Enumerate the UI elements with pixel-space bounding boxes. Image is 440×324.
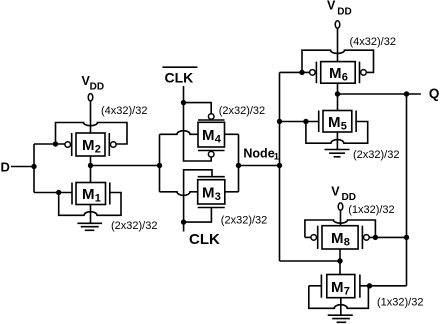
- transmission gate left bus: [159, 134, 161, 192]
- wire M1 gate stub: [34, 192, 72, 194]
- node M8 strap junction: [373, 235, 378, 240]
- node inverter1 output: [88, 163, 93, 168]
- svg-text:M: M: [202, 127, 215, 144]
- node M6 gate strap junction: [299, 70, 304, 75]
- transistor M7 (NMOS keeper): [321, 275, 360, 298]
- svg-text:1: 1: [95, 193, 101, 205]
- wire M5 gate strap (hops over ground wire): [306, 122, 368, 144]
- wire M8 drain to M7 drain: [339, 249, 341, 275]
- wire M6 gate strap (hops over VDD wire): [302, 50, 374, 72]
- node M5 gate strap junction: [303, 119, 308, 124]
- svg-text:2: 2: [95, 144, 101, 156]
- wire keeper output to Node1: [280, 260, 341, 262]
- wire M1 source to ground: [90, 205, 92, 224]
- wire CLK-bar to M4 gates: [184, 103, 212, 161]
- svg-text:M: M: [82, 137, 95, 154]
- svg-text:6: 6: [342, 72, 348, 84]
- node Node1 left: [236, 163, 241, 168]
- node M7 gate junction: [367, 283, 372, 288]
- wire CLK-bar stem: [183, 86, 185, 103]
- wire M1 gate strap (hops over ground wire): [59, 193, 121, 216]
- svg-text:(4x32)/32: (4x32)/32: [350, 36, 396, 48]
- transmission gate right bus: [238, 134, 240, 192]
- node CLK junction: [181, 219, 186, 224]
- wire M7 gate strap (hops over ground wire): [309, 286, 369, 309]
- svg-text:4: 4: [215, 134, 222, 146]
- svg-text:(2x32)/32: (2x32)/32: [353, 149, 399, 161]
- wire M6 drain to M5 drain: [337, 83, 339, 110]
- svg-text:(1x32)/32: (1x32)/32: [348, 204, 394, 216]
- node M1 gate strap junction: [56, 190, 61, 195]
- svg-text:8: 8: [344, 237, 350, 249]
- wire M2 gate strap (hops over VDD wire): [56, 123, 128, 145]
- transistor M2 (PMOS): [65, 133, 116, 156]
- svg-text:(2x32)/32: (2x32)/32: [111, 220, 157, 232]
- svg-text:M: M: [328, 114, 341, 131]
- wire M8 gate to Q line: [369, 236, 406, 238]
- power VDD terminal (right mid): [338, 203, 343, 210]
- right section input bus: [279, 72, 281, 261]
- svg-text:(4x32)/32: (4x32)/32: [101, 105, 147, 117]
- svg-text:M: M: [202, 185, 215, 202]
- wire VDD to M6 source: [337, 28, 339, 61]
- transistor M8 (PMOS keeper): [311, 226, 369, 249]
- svg-text:M: M: [82, 186, 95, 203]
- node M2 gate strap junction: [53, 141, 58, 146]
- wire M7 gate stub: [309, 285, 322, 287]
- wire VDD to M2 source: [90, 101, 92, 133]
- svg-text:D: D: [1, 160, 10, 175]
- wire inverter1 output to transmission gate: [91, 165, 160, 167]
- clock CLK-bar label: [162, 67, 197, 85]
- node TG input: [157, 163, 162, 168]
- svg-text:M: M: [331, 230, 344, 247]
- transistor M4 (PMOS pass): [198, 114, 225, 157]
- svg-text:3: 3: [215, 191, 221, 203]
- node D junction: [31, 164, 36, 169]
- node keeper output: [337, 258, 342, 263]
- transistor M3 (NMOS pass): [198, 177, 225, 208]
- ground symbol (right top): [325, 150, 350, 157]
- wire M8 left gate stub: [305, 236, 311, 238]
- wire Node1: [239, 165, 280, 167]
- wire TG left to M3 (hops over CLK wire): [160, 192, 198, 196]
- node Q output: [335, 91, 340, 96]
- svg-text:M: M: [329, 65, 342, 82]
- node Node1 label: [243, 147, 279, 163]
- wire M7 gate to Q line: [360, 285, 407, 287]
- svg-text:DD: DD: [90, 82, 104, 93]
- wire bus to M6 gate: [280, 71, 310, 73]
- svg-text:CLK: CLK: [189, 231, 220, 248]
- wire M7 source to ground: [340, 298, 342, 316]
- wire M5 source to ground: [336, 132, 338, 150]
- wire CLK to M3 gates: [184, 170, 212, 232]
- wire TG left to M4 (hops over CLK-bar wire): [160, 131, 199, 135]
- svg-text:Q: Q: [429, 86, 440, 101]
- wire bus to M5 gate: [280, 121, 319, 123]
- wire Q feedback line: [406, 94, 408, 286]
- svg-text:(2x32)/32: (2x32)/32: [219, 105, 265, 117]
- wire Q output: [338, 93, 421, 95]
- node Q feedback junction: [404, 91, 409, 96]
- svg-text:V: V: [327, 0, 336, 13]
- svg-text:Node: Node: [243, 147, 274, 161]
- transistor M1 (NMOS): [72, 183, 110, 205]
- power VDD terminal (right top): [335, 21, 340, 28]
- wire D input: [11, 166, 34, 168]
- node M8 gate Q junction: [404, 235, 409, 240]
- node CLK-bar junction: [181, 100, 186, 105]
- wire D gate bus: [33, 144, 35, 193]
- svg-text:7: 7: [344, 286, 350, 298]
- wire M4 right to TG bus: [225, 133, 239, 135]
- svg-text:DD: DD: [337, 7, 351, 18]
- wire M2 drain to M1 drain: [90, 156, 92, 183]
- svg-text:(2x32)/32: (2x32)/32: [221, 214, 267, 226]
- wire VDD to M8 source: [340, 210, 342, 225]
- svg-text:DD: DD: [342, 192, 356, 203]
- transistor M6 (PMOS): [310, 62, 367, 84]
- wire M8 gate strap (hops over VDD wire): [305, 220, 376, 237]
- ground symbol (right bottom): [328, 315, 353, 322]
- svg-text:5: 5: [341, 121, 347, 133]
- wire M3 right to TG bus: [225, 191, 239, 193]
- node bus M5 branch: [277, 119, 282, 124]
- node Node1 right: [277, 163, 282, 168]
- wire M2 gate stub: [34, 143, 65, 145]
- transistor M5 (NMOS): [319, 111, 356, 133]
- ground symbol (left): [77, 223, 102, 230]
- svg-text:(1x32)/32: (1x32)/32: [377, 297, 423, 309]
- svg-text:CLK: CLK: [165, 69, 194, 85]
- svg-text:M: M: [331, 279, 344, 296]
- power VDD terminal (left): [88, 94, 93, 101]
- svg-text:V: V: [331, 184, 340, 198]
